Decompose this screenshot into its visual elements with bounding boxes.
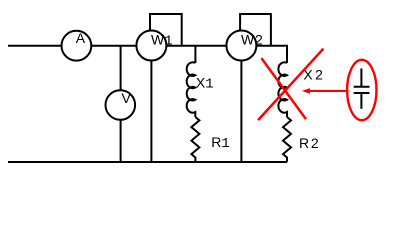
svg-text:R1: R1	[211, 134, 230, 152]
svg-text:X1: X1	[196, 75, 214, 93]
svg-text:V: V	[122, 90, 132, 106]
svg-text:R2: R2	[299, 135, 321, 151]
svg-text:A: A	[76, 30, 86, 46]
svg-text:W2: W2	[241, 31, 264, 47]
svg-text:X2: X2	[303, 67, 325, 83]
svg-text:W1: W1	[151, 31, 173, 49]
